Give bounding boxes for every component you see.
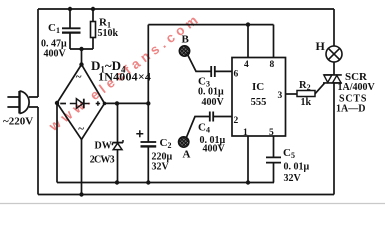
electrode A (179, 137, 189, 147)
capacitor C1 plates (62, 28, 81, 32)
wire ground bus (57, 182, 274, 184)
AC plug body (20, 91, 30, 114)
svg-text:555: 555 (251, 97, 267, 108)
wire bridge left vertex down to ground bus (56, 103, 58, 183)
capacitor C2 plates (141, 142, 157, 146)
capacitor C4 plates (210, 112, 213, 122)
svg-text:2CW3: 2CW3 (90, 155, 115, 166)
resistor R1 box (91, 22, 96, 38)
wire junction bar to bridge top (81, 49, 83, 65)
wire bridge bottom vertex down to bottom bus (81, 140, 83, 195)
wire C4 to pin2 (213, 116, 232, 118)
wire pin4 drop (247, 25, 249, 58)
wire pin3 to R2 (286, 93, 298, 95)
wire plug outputs (29, 97, 38, 107)
wire top bus (38, 8, 334, 10)
SCR (triac symbol) (323, 75, 342, 83)
capacitor C3 plates (211, 66, 215, 77)
bridge inner diode D (76, 99, 83, 109)
svg-text:2: 2 (234, 116, 239, 126)
wire VCC bus (148, 24, 273, 26)
svg-text:1A/400V: 1A/400V (338, 82, 376, 93)
wire left vertical lower (plug to bottom bus) (37, 107, 39, 195)
svg-text:B: B (182, 34, 190, 46)
IC 555 box (232, 58, 286, 137)
svg-text:32V: 32V (284, 173, 302, 184)
svg-text:1N4004×4: 1N4004×4 (98, 70, 151, 84)
wire R1 branch (92, 9, 94, 49)
svg-text:6: 6 (234, 70, 239, 80)
wire DW branch vertical (117, 103, 119, 182)
wire C3 to pin6 (215, 70, 232, 72)
svg-text:DW: DW (95, 141, 112, 152)
svg-text:0. 01μ: 0. 01μ (198, 87, 224, 98)
wire C1-R1 junction bar (70, 48, 93, 50)
wire pin8 drop (273, 25, 275, 58)
svg-text:1: 1 (243, 128, 248, 138)
bottom gray border line (0, 203, 385, 205)
svg-text:8: 8 (270, 60, 275, 70)
svg-text:0. 01μ: 0. 01μ (284, 162, 310, 173)
svg-text:1A—D: 1A—D (336, 104, 365, 115)
lamp H (326, 46, 342, 62)
wire left vertical upper (plug to top bus) (37, 9, 39, 97)
svg-text:400V: 400V (202, 97, 225, 108)
svg-text:4: 4 (244, 60, 249, 70)
wire R2 to SCR gate (315, 83, 325, 94)
C2 plus sign (136, 130, 143, 137)
svg-text:~: ~ (78, 123, 84, 135)
wire electrode B to C3 (188, 55, 211, 71)
bridge inner diode leads (70, 103, 90, 105)
svg-text:400V: 400V (44, 49, 67, 60)
svg-text:H: H (316, 39, 326, 53)
bridge inner minus mark (60, 103, 66, 105)
bridge plus mark (96, 101, 100, 105)
svg-text:1k: 1k (301, 97, 312, 108)
wire pin1 drop (247, 136, 249, 183)
wire C1 branch (69, 9, 71, 49)
wire pin5 to C5 (273, 136, 275, 183)
svg-text:IC: IC (252, 81, 264, 93)
svg-text:400V: 400V (203, 144, 226, 155)
svg-text:510k: 510k (98, 28, 119, 39)
svg-text:32V: 32V (152, 162, 170, 173)
wire bridge right vertex to VCC rail (105, 102, 149, 104)
wire VCC rail vertical (147, 25, 149, 183)
svg-text:A: A (183, 149, 191, 161)
svg-text:~: ~ (76, 71, 82, 83)
node dots (55, 7, 250, 197)
svg-text:3: 3 (278, 91, 283, 101)
bridge rectifier D1-D4 diamond (57, 65, 105, 140)
resistor R2 box (297, 91, 315, 97)
wire electrode A to C4 (186, 117, 209, 138)
zener DW symbol (112, 140, 123, 150)
wire plug prongs (7, 97, 19, 107)
wire bottom bus (38, 194, 334, 196)
svg-text:5: 5 (269, 128, 274, 138)
capacitor C5 plates (266, 157, 281, 162)
wire right vertical segments (lamp/SCR branch) (333, 9, 335, 195)
svg-text:~220V: ~220V (3, 116, 33, 128)
electrode B (179, 46, 189, 56)
